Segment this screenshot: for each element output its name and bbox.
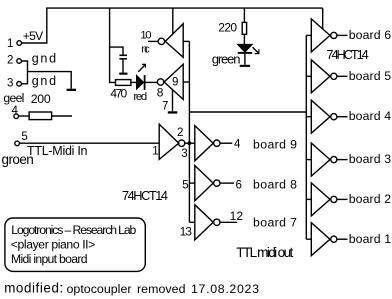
wire VCC drop to U1E [172,8,174,34]
title box [5,218,145,271]
svg-text:7: 7 [162,100,168,112]
svg-text:groen: groen [2,152,34,167]
wire R470 to LED red [131,81,137,83]
wire gnd pins 2-3 junction [21,61,27,84]
svg-text:8: 8 [157,86,164,100]
svg-text:4: 4 [12,105,19,117]
inverter U2D (board 4) [306,116,311,118]
svg-text:5: 5 [182,179,188,191]
svg-text:board 4: board 4 [349,109,392,123]
svg-text:1: 1 [152,146,158,158]
inverter U1E nc triangle [165,24,183,58]
svg-text:nc: nc [141,44,150,56]
svg-text:geel: geel [3,91,24,105]
wire VCC drop to U2 [322,8,324,29]
LED red arrow [138,65,145,72]
svg-text:board 7: board 7 [253,216,297,230]
op bubble pin 12 [214,219,220,225]
resistor R 220 [242,22,246,34]
ground (pin 7) [168,111,178,113]
resistor R 470 [116,80,131,86]
svg-text:TTL midi out: TTL midi out [236,245,293,260]
node pin 3 gnd [17,82,22,87]
svg-text:3: 3 [7,77,13,89]
inverter U2E (board 5) [306,75,311,77]
ground (pins 2-3) [67,89,76,91]
svg-text:220: 220 [218,21,237,35]
inverter U1C triangle (board 8) [195,166,213,201]
op bubble pin 6 [214,180,220,186]
svg-text:board 1: board 1 [349,232,392,246]
svg-text:2: 2 [7,54,13,66]
svg-text:removed: removed [137,282,186,296]
svg-text:board 9: board 9 [253,137,297,151]
node pin 2 gnd [17,59,22,64]
svg-text:470: 470 [110,87,127,101]
wire output 12 [220,221,237,223]
inverter U1B triangle (board 9) [195,126,213,161]
op bubble pin 4 [214,140,220,146]
wire pin 7 ground [172,90,174,112]
svg-text:board 2: board 2 [349,192,392,206]
LED red diode [137,76,144,89]
svg-text:2: 2 [177,127,183,139]
svg-text:+5V: +5V [23,29,44,43]
inverter U2A (board 1) [306,238,311,240]
svg-text:4: 4 [234,139,241,151]
node pin 5 TTL-Midi In [15,141,20,146]
resistor R 200 [29,112,51,120]
wire pin 9 input stub [183,81,189,83]
svg-text:gnd: gnd [32,52,56,66]
LED green diode [238,45,252,52]
svg-text:Logotronics – Research Lab: Logotronics – Research Lab [11,223,136,237]
op bubble pin 10 [158,38,164,44]
wire R200 dangling (optocoupler removed) [52,115,72,117]
svg-text:12: 12 [230,209,244,223]
svg-text:13: 13 [180,225,193,239]
svg-text:board 5: board 5 [349,69,392,83]
capacitor C1 [119,55,127,57]
node junction dot [188,141,192,145]
inverter U1D triangle [164,64,183,99]
svg-text:1: 1 [7,38,13,50]
svg-text:200: 200 [31,92,51,106]
wire pin 11 input stub [183,40,189,42]
op bubble pin 8 [157,79,163,85]
wire cap stub [110,47,123,54]
wire 220 drop [243,8,245,22]
node pin 4 geel [14,114,19,119]
inverter U2F (board 6) [306,34,311,36]
wire pin 5 stub [189,182,194,184]
svg-text:<player piano II>: <player piano II> [11,238,96,252]
svg-text:board 8: board 8 [253,177,297,191]
wire TTL-Midi In to inverter U1A input pin 1 [19,142,159,144]
svg-text:5: 5 [21,131,27,143]
svg-text:9: 9 [172,76,178,88]
svg-text:board 3: board 3 [349,152,392,166]
svg-text:74HCT14: 74HCT14 [326,47,368,62]
inverter U1A triangle [159,124,179,159]
wire +5V top rail [22,8,323,43]
wire 220 to LED green [243,34,245,44]
svg-text:board 6: board 6 [349,28,392,42]
svg-text:0: 0 [145,29,151,41]
inverter U2C (board 3) [306,159,311,161]
wire pin 3 stub [185,142,195,144]
wire rail to right bus [189,111,306,113]
op bubble pin 2 [178,140,184,146]
wire signal rail [188,41,190,222]
wire LED to inverter output pin 8 [146,81,158,83]
wire right input bus [305,35,307,239]
svg-text:green: green [212,52,241,67]
wire pin4 to R 200 [18,115,29,117]
ground (capacitor) [119,73,127,75]
wire output 4 [220,142,232,144]
svg-text:17.08.2023: 17.08.2023 [191,282,259,296]
wire pin 13 stub [189,221,194,223]
wire output 6 [220,182,234,184]
svg-text:gnd: gnd [32,74,56,88]
node pin 1 +5V [17,41,22,46]
svg-text:6: 6 [236,179,242,191]
svg-text:3: 3 [181,148,187,160]
wire pin 10 nc stub [148,40,158,42]
inverter U2B (board 2) [306,198,311,200]
LED green arrow [253,47,259,53]
svg-text:Midi input board: Midi input board [11,252,88,266]
svg-text:TTL-Midi In: TTL-Midi In [27,144,88,158]
ground (LED green) [240,65,250,67]
wire junction to ground [28,72,72,89]
svg-text:modified:: modified: [4,280,63,295]
svg-text:74HCT14: 74HCT14 [122,188,168,203]
wire +5V drop to R470 [110,8,116,82]
svg-text:optocoupler: optocoupler [67,282,132,296]
svg-text:red: red [133,91,147,103]
inverter U1F triangle (board 7) [195,205,213,240]
